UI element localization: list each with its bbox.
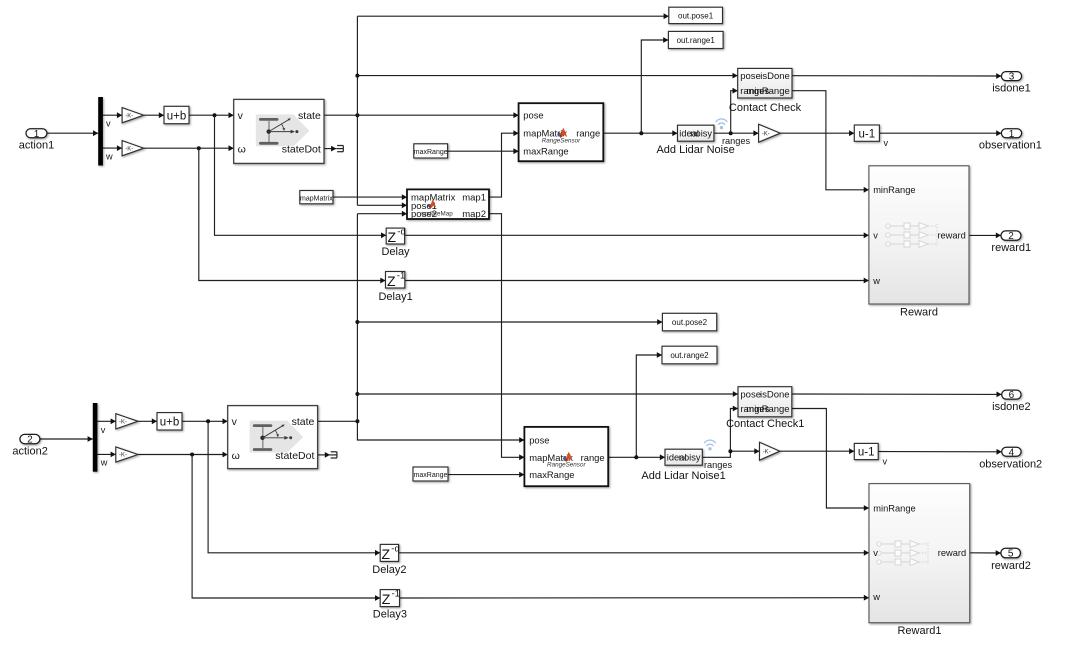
wire state1 vertical [356,16,358,205]
svg-text:minRange: minRange [746,404,789,415]
wire range1 to out.range1 [641,40,668,133]
wire map2 to RangeSensor1 mapMatrix [489,214,524,458]
wire range2 out to lidar noise1 [608,456,665,458]
svg-text:v: v [238,110,244,122]
svg-text:Contact Check: Contact Check [729,102,802,114]
constant mapMatrix [300,191,333,204]
svg-text:-d: -d [391,543,399,554]
wire state1 out [324,114,519,116]
wire demux2 v out [97,420,115,422]
wire u+b1 to kinematics2 v [182,420,228,422]
svg-text:-K-: -K- [119,420,127,426]
svg-text:v: v [106,119,111,129]
wire action2 to demux2 [40,438,93,440]
svg-text:Delay3: Delay3 [373,608,407,620]
demux Demux1 [98,97,103,166]
junction v2 [206,419,210,423]
svg-text:minRange: minRange [873,503,915,513]
svg-text:w: w [100,458,108,468]
svg-text:2: 2 [1008,231,1014,242]
svg-text:out.pose1: out.pose1 [678,12,714,21]
wire state1 to Contact Check pose [357,75,737,77]
wire Delay1 to Reward w [405,280,869,282]
svg-text:-K-: -K- [125,146,133,152]
svg-text:stateDot: stateDot [275,450,314,462]
svg-text:updateMap: updateMap [421,210,453,217]
port outport reward2 [1001,548,1021,559]
port outport isdone1 [1001,72,1021,83]
svg-text:pose: pose [740,71,761,82]
svg-text:Delay1: Delay1 [378,291,412,303]
bias block u-1 (top) [854,125,879,141]
junction ranges1 [729,131,733,135]
svg-text:isDone: isDone [760,389,790,400]
demux Demux2 [93,403,98,472]
svg-text:Delay: Delay [381,246,410,258]
svg-text:reward2: reward2 [991,560,1031,572]
wire Delay2 to Reward1 v [399,552,869,554]
svg-text:pose: pose [740,389,761,400]
svg-text:w: w [872,276,880,286]
svg-text:minRange: minRange [746,86,789,97]
constant maxRange (top) [414,144,448,158]
svg-text:v: v [873,231,878,241]
svg-text:Reward: Reward [900,306,938,318]
wire gain G1 to u+b [144,114,164,116]
svg-text:map1: map1 [462,193,486,204]
MATLAB function updateMap [407,189,489,220]
svg-text:v: v [884,138,889,148]
junction range1 [639,131,643,135]
svg-text:Add Lidar Noise: Add Lidar Noise [656,144,734,156]
svg-text:minRange: minRange [873,185,915,195]
svg-text:Contact Check1: Contact Check1 [726,418,804,430]
junction state2 to out.pose2 [355,320,359,324]
wire state2 vertical to updateMap pose2 [357,213,407,215]
wifi icon (bottom) [704,440,715,445]
port inport action1 [26,129,47,140]
svg-text:reward: reward [938,548,966,558]
wire u-1 to observation2 [878,451,1002,453]
svg-text:mapMatrix: mapMatrix [300,195,333,202]
junction v1 [213,113,217,117]
wire ranges2 to Contact Check1 [730,409,738,452]
subsystem Robot Kinematic Model (bottom) [228,406,318,469]
svg-text:v: v [101,425,106,435]
svg-text:action2: action2 [12,446,47,458]
svg-text:w: w [105,152,113,162]
port inport action2 [20,434,40,445]
svg-text:4: 4 [1009,447,1015,458]
gain Gain [122,108,144,123]
svg-text:Reward1: Reward1 [897,625,941,637]
wire stateDot1 to terminator [324,148,336,150]
svg-text:maxRange: maxRange [529,469,574,480]
To-workspace out.range1 [668,31,723,48]
svg-text:u-1: u-1 [858,128,875,140]
svg-text:observation2: observation2 [979,458,1042,470]
svg-text:Z: Z [382,546,391,562]
svg-text:observation1: observation1 [979,140,1042,152]
wire state2 out [318,420,358,422]
wire isDone to isdone2 port [792,393,1002,395]
subsystem Contact Check1 [738,387,792,417]
svg-text:noisy: noisy [690,128,712,138]
port outport observation2 [1002,447,1021,458]
wire map1 to RangeSensor mapMatrix [489,133,519,197]
svg-text:state: state [298,110,321,122]
svg-text:out.range1: out.range1 [677,36,716,45]
svg-text:pose: pose [529,434,549,445]
wire demux1 v out [103,114,122,116]
wire range1 out to lidar noise [603,132,677,134]
svg-text:3: 3 [1009,72,1015,83]
subsystem Contact Check [738,68,792,98]
junction ranges2 [728,449,732,453]
bias block u+b [164,106,189,123]
wire state2 to out.pose2 [357,321,662,323]
bias block u+b (bottom) [157,413,182,430]
svg-text:maxRange: maxRange [523,146,568,157]
svg-text:v: v [883,456,888,466]
wire mapMatrix const to updateMap [333,196,407,198]
gain Gain4 [116,447,138,462]
svg-text:isdone2: isdone2 [992,401,1031,413]
wire Delay to Reward v [405,234,869,236]
wire gain G2 to kinematics omega [144,147,234,149]
wire noisy1 to gain [714,132,759,134]
delay Delay1 [386,270,406,289]
wire stateDot2 to terminator [318,454,330,456]
svg-text:Add Lidar Noise1: Add Lidar Noise1 [641,470,725,482]
wifi icon (top) [716,119,727,124]
svg-text:out.pose2: out.pose2 [672,318,708,327]
To-workspace out.pose2 [662,313,716,331]
delay Delay2 [380,543,400,562]
svg-text:-K-: -K- [763,449,771,455]
svg-text:-K-: -K- [119,453,127,459]
wire gain G3 to u+b1 [138,420,157,422]
To-workspace out.pose1 [669,7,723,23]
svg-text:maxRange: maxRange [414,472,448,479]
subsystem Reward1 [869,484,970,623]
wire Delay3 to Reward1 w [399,597,869,599]
junction state2 to contact check1 [355,392,359,396]
junction state1 to contact check [355,74,359,78]
bias block u-1 (bottom) [854,443,878,459]
svg-text:stateDot: stateDot [282,144,321,156]
svg-text:Z: Z [388,229,397,245]
constant maxRange (bottom) [413,467,448,481]
svg-text:ω: ω [232,450,240,462]
wire gain to u-1 block [780,132,854,134]
svg-text:Z: Z [382,591,391,607]
wire u+b to kinematics v [189,114,234,116]
subsystem Add Lidar Noise1 [665,449,702,465]
junction w2 [190,453,194,457]
svg-text:isdone1: isdone1 [992,83,1031,95]
svg-text:v: v [232,416,238,428]
svg-text:maxRange: maxRange [414,149,448,156]
port outport reward1 [1001,231,1021,242]
svg-text:RangeSensor: RangeSensor [547,461,586,468]
port outport isdone2 [1002,390,1021,401]
wire Reward to reward1 port [969,234,1001,236]
svg-text:ranges: ranges [704,460,732,470]
gain Gain1 [122,141,144,156]
wire u-1 to observation1 [879,132,1001,134]
svg-text:2: 2 [27,435,33,446]
svg-text:u+b: u+b [167,110,187,122]
svg-text:-K-: -K- [125,113,133,119]
svg-text:reward1: reward1 [991,242,1031,254]
delay Delay3 [380,589,400,608]
svg-text:1: 1 [34,129,40,140]
terminator (stateDot2) [330,452,337,458]
wire demux1 w out [103,147,122,149]
svg-text:-d: -d [397,227,405,238]
wire state2 vertical [357,214,524,440]
wire gain to u-1 block2 [780,450,855,452]
junction state2 [355,419,359,423]
terminator (stateDot1) [337,146,344,152]
wire w2 branch to Delay3 [192,455,380,599]
svg-text:-1: -1 [392,589,400,600]
svg-text:Z: Z [387,273,396,289]
wire action1 to demux [47,132,98,134]
wire demux2 w out [97,453,115,455]
subsystem Add Lidar Noise [678,125,714,141]
svg-text:1: 1 [1009,129,1015,140]
wire state1 to updateMap pose1 [357,204,407,206]
MATLAB system RangeSensor (top) [519,103,604,161]
wire isDone to isdone1 port [792,75,1001,77]
wire v2 branch to Delay2 [208,421,380,553]
wire range2 to out.range2 [636,355,662,457]
wire noisy2 to gain [702,451,759,457]
wire minRange to Reward1 [792,409,869,509]
svg-text:action1: action1 [19,140,54,152]
To-workspace out.range2 [662,346,717,364]
subsystem Reward [869,166,969,304]
svg-text:noisy: noisy [679,453,701,463]
svg-text:out.range2: out.range2 [670,351,709,360]
svg-text:map2: map2 [462,209,486,220]
svg-text:isDone: isDone [760,71,790,82]
wire v1 branch to Delay [215,115,387,235]
wire gain G4 to kinematics2 omega [138,454,228,456]
gain Gain2 [759,124,781,142]
wire state1 to out.pose1 [357,15,668,17]
wire maxRange const2 to RangeSensor1 [448,474,524,476]
svg-text:RangeSensor: RangeSensor [542,138,581,145]
delay Delay [386,227,406,245]
svg-text:w: w [872,592,880,602]
svg-text:5: 5 [1008,549,1014,560]
junction state1 [355,113,359,117]
subsystem Robot Kinematic Model (top) [234,99,324,163]
svg-text:reward: reward [937,231,965,241]
gain Gain5 [760,442,780,460]
wire state2 to Contact Check1 pose [357,393,738,395]
svg-text:Delay2: Delay2 [372,564,406,576]
wire Reward1 to reward2 port [970,552,1001,554]
svg-text:v: v [873,548,878,558]
gain Gain3 [116,414,138,429]
wire w1 branch to Delay1 [199,148,386,280]
junction range2 [634,455,638,459]
svg-text:u-1: u-1 [858,447,875,459]
port outport observation1 [1001,129,1021,140]
svg-text:state: state [292,416,315,428]
wire maxRange const to RangeSensor [448,150,519,152]
svg-text:6: 6 [1009,390,1015,401]
svg-text:-K-: -K- [762,131,770,137]
svg-text:-1: -1 [397,270,405,281]
svg-text:u+b: u+b [160,417,180,429]
wire minRange to Reward [792,91,869,190]
junction w1 [197,146,201,150]
MATLAB system RangeSensor (bottom) [524,427,608,486]
wire ranges1 to Contact Check [731,91,738,134]
svg-text:ω: ω [238,144,246,156]
svg-text:pose: pose [523,110,543,121]
